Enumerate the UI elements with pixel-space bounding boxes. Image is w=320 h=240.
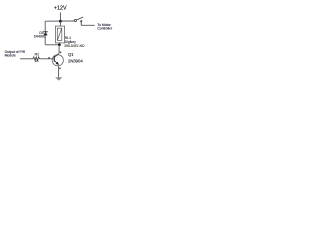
node junction on rail xyxy=(59,20,62,23)
node emitter pin mark xyxy=(59,68,60,70)
relay RL1 xyxy=(55,26,64,43)
ground xyxy=(55,77,62,80)
node base pin mark xyxy=(48,57,49,58)
svg-text:255-5457-ND: 255-5457-ND xyxy=(64,44,85,48)
diode D1 xyxy=(43,32,48,45)
wire relay coil bottom stub xyxy=(58,43,60,45)
svg-text:Controller: Controller xyxy=(97,27,113,31)
wire collector vertical xyxy=(58,45,60,54)
wire resistor to base xyxy=(40,58,54,60)
wire diode branch down xyxy=(44,21,46,31)
wire bottom horizontal xyxy=(45,44,59,46)
transistor Q1 xyxy=(52,53,63,66)
relay contact moving arrow xyxy=(80,20,82,26)
resistor R1 xyxy=(33,57,40,60)
svg-text:R1: R1 xyxy=(35,52,40,56)
svg-text:1N4001: 1N4001 xyxy=(34,34,46,38)
wire +12V stub xyxy=(59,12,61,21)
svg-text:2N3904: 2N3904 xyxy=(68,58,83,63)
relay contact switch pole xyxy=(74,19,76,21)
svg-text:Module: Module xyxy=(5,54,16,58)
wire to motor controller xyxy=(81,24,95,26)
svg-text:+12V: +12V xyxy=(54,6,67,12)
relay contact arm xyxy=(77,17,84,20)
node collector pin mark xyxy=(60,52,61,54)
wire +12V rail xyxy=(45,20,74,22)
svg-text:1K: 1K xyxy=(35,59,40,63)
svg-text:Q1: Q1 xyxy=(68,52,74,57)
node collector junction xyxy=(58,43,61,46)
wire relay coil top stub xyxy=(59,21,61,26)
wire PIR to resistor xyxy=(20,58,33,60)
wire emitter to ground xyxy=(58,66,60,78)
